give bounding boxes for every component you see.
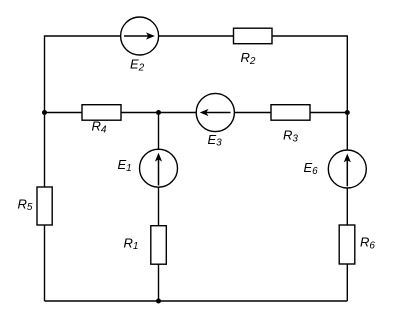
resistor R3 [271, 105, 310, 121]
wire right rail between E6 and R6 [346, 188, 348, 225]
wire middle rail R4 to E3 [121, 112, 196, 114]
node junction bottom (bottom rail / R1 branch) [156, 299, 161, 304]
wire middle branch E1 to R1 [158, 187, 160, 226]
wire top rail between E2 and R2 [159, 35, 234, 37]
resistor R2 [234, 28, 273, 44]
wire middle rail left to R4 [45, 112, 83, 114]
wire top-left corner (left rail top to E2) [45, 36, 121, 187]
wire left rail bottom section [44, 225, 46, 301]
wire middle rail E3 to R3 [234, 112, 271, 114]
wire right rail R6 to bottom corner [346, 264, 348, 301]
resistor R4 [82, 105, 121, 121]
node junction left (middle rail / left rail) [42, 110, 47, 115]
wire middle branch node to E1 [158, 113, 160, 150]
wire middle branch R1 to bottom node [158, 264, 160, 301]
node junction right (middle rail / right rail) [345, 110, 350, 115]
resistor R5 [37, 187, 52, 225]
source E2 [121, 17, 159, 55]
resistor R1 [151, 226, 167, 265]
wire top-right corner (R2 to right rail down to E6) [272, 36, 347, 150]
node junction middle (middle rail / E1 branch) [156, 110, 161, 115]
source E6 [328, 150, 366, 188]
source E1 [140, 149, 178, 187]
resistor R6 [339, 225, 355, 264]
source E3 [196, 93, 234, 131]
wire middle rail R3 to right rail [310, 112, 347, 114]
wire bottom rail [45, 300, 348, 302]
